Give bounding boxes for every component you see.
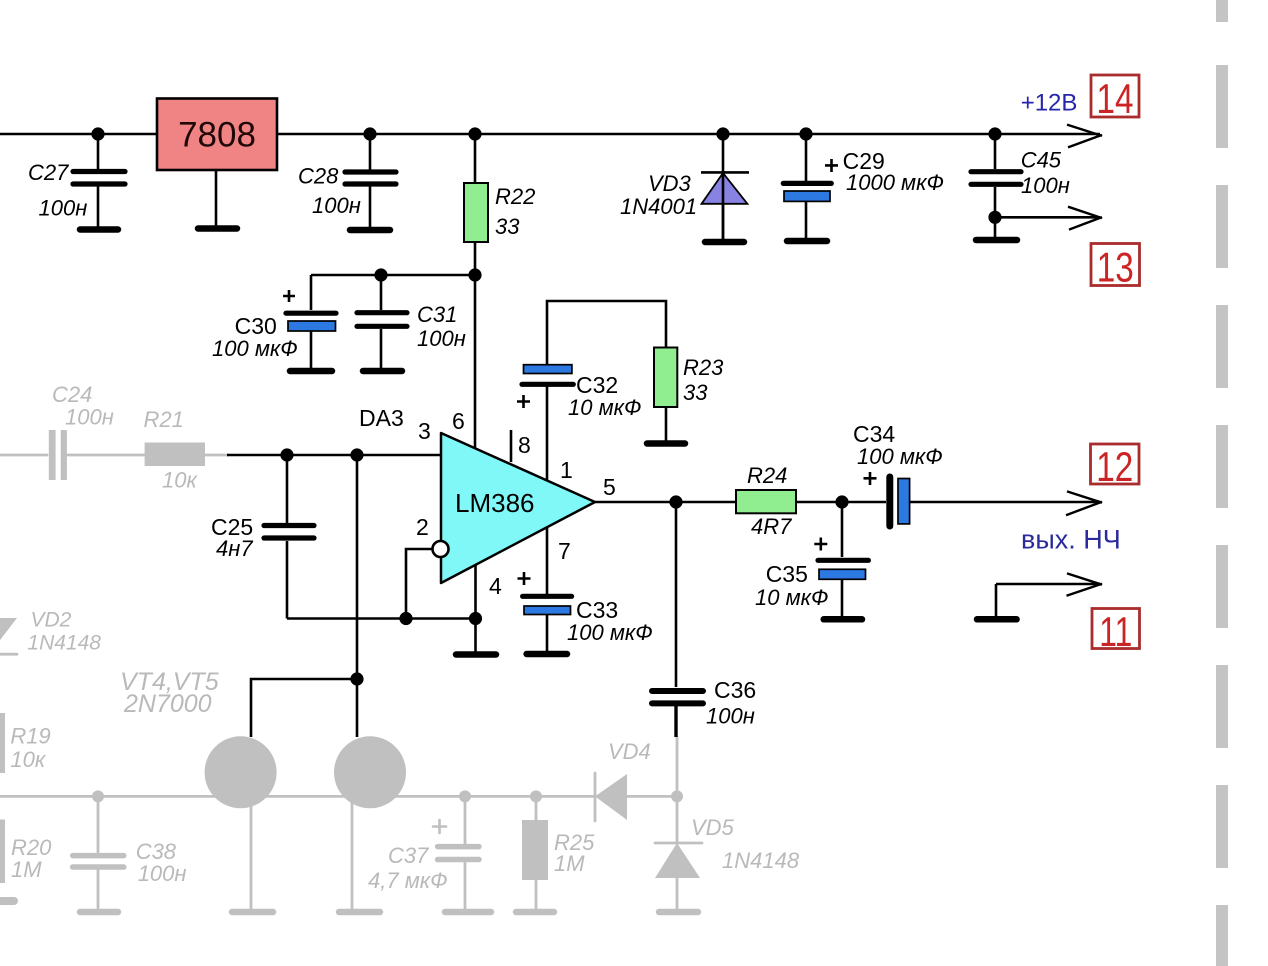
node pin2 bottom [399, 612, 412, 625]
svg-text:2: 2 [416, 514, 429, 540]
node R25 junction [530, 790, 542, 802]
wire +12V rail right [277, 133, 1100, 136]
resistor R25 [522, 796, 548, 908]
diode VD3 [701, 172, 749, 239]
wire C24 to R21 [68, 454, 145, 457]
ground pin4 [456, 651, 496, 658]
wire C27 bottom [97, 187, 100, 229]
svg-text:2N7000: 2N7000 [123, 690, 212, 718]
plus C29 [825, 159, 838, 172]
node C45 bottom [988, 211, 1001, 224]
svg-text:4: 4 [489, 573, 502, 599]
wire C25 top lead [286, 455, 289, 523]
capacitor C33 blue plate [524, 606, 571, 615]
regulator U 7808 [157, 99, 277, 171]
ARROWS [1066, 125, 1102, 596]
plus C34 [864, 472, 877, 485]
svg-text:C27: C27 [28, 160, 69, 185]
node output C36 [669, 495, 682, 508]
capacitor C37 [433, 796, 479, 908]
capacitor C34 blue plate [898, 479, 910, 524]
capacitor C25 [264, 526, 314, 539]
ground C33 [527, 651, 567, 658]
capacitor C30 blue plate [288, 321, 336, 331]
svg-text:100н: 100н [706, 704, 755, 729]
wire C32 top to R23 [547, 301, 666, 366]
svg-text:1N4001: 1N4001 [620, 194, 697, 219]
node C37 junction [459, 790, 471, 802]
ground R23 [647, 440, 685, 447]
svg-text:R21: R21 [144, 407, 184, 432]
capacitor C38 [73, 796, 124, 908]
svg-text:VD5: VD5 [691, 815, 735, 840]
svg-text:10к: 10к [162, 468, 198, 493]
svg-text:DA3: DA3 [359, 405, 404, 431]
svg-text:C32: C32 [576, 372, 618, 398]
ground VT5 [339, 909, 380, 916]
arrow output 14 [1067, 125, 1102, 148]
svg-text:C36: C36 [714, 677, 756, 703]
arrow output 12 [1066, 491, 1102, 515]
svg-text:C31: C31 [417, 302, 457, 327]
svg-text:33: 33 [683, 380, 708, 405]
wire pin7 to C33 [546, 527, 549, 594]
svg-text:100 мкФ: 100 мкФ [212, 336, 298, 361]
node rail C29 [799, 127, 812, 140]
svg-text:C28: C28 [298, 164, 339, 189]
svg-text:VD4: VD4 [608, 739, 651, 764]
capacitor C29 top plate [783, 181, 831, 186]
node C25 top [280, 448, 293, 461]
svg-text:13: 13 [1097, 244, 1134, 291]
svg-text:LM386: LM386 [455, 488, 535, 518]
CONNECTOR PIN BOXES [1091, 75, 1140, 655]
capacitor C32 blue plate [524, 365, 572, 374]
capacitor C29 blue plate [784, 191, 830, 201]
svg-text:100н: 100н [417, 326, 466, 351]
wire input black to pin3 [227, 454, 441, 457]
wire VD3 ground lead [722, 204, 725, 239]
op-amp DA3 LM386 [441, 433, 595, 583]
wire R23 ground lead [665, 407, 668, 441]
ground VT4 [232, 909, 273, 916]
resistor R23 [654, 348, 677, 408]
resistor R24 [736, 490, 796, 513]
transistor VT5 [334, 736, 406, 808]
wire C33 ground lead [546, 613, 549, 651]
node R22 bottom [468, 268, 481, 281]
wire gate VT4 branch [251, 679, 357, 737]
ground 7808 [198, 225, 237, 232]
node rail C28 [363, 127, 376, 140]
wire pin2 to bottom node [406, 549, 433, 619]
pin box 12 [1091, 443, 1140, 490]
node rail R22 [468, 127, 481, 140]
wire R24 to C34 [796, 501, 886, 504]
svg-text:1N4148: 1N4148 [722, 848, 800, 873]
svg-text:100 мкФ: 100 мкФ [857, 444, 943, 469]
wire bottom node line [287, 617, 476, 620]
capacitor C36 [652, 691, 703, 703]
BLUE NET LABELS [1021, 90, 1121, 555]
ground C27 [80, 226, 118, 233]
svg-text:4R7: 4R7 [751, 514, 792, 539]
ground C29 [787, 238, 827, 245]
svg-text:100 мкФ: 100 мкФ [567, 620, 653, 645]
svg-text:R24: R24 [747, 463, 787, 488]
svg-text:7: 7 [558, 538, 571, 564]
diode VD2 fragment [0, 618, 17, 654]
svg-text:10к: 10к [10, 747, 46, 772]
node gate branch [350, 672, 363, 685]
svg-text:7808: 7808 [178, 116, 256, 155]
wire arrow11 line [996, 583, 1100, 586]
ground R20 fragment [0, 897, 14, 905]
BLACK TEXT LABELS italic [28, 148, 1070, 729]
wire arrow13 line [995, 216, 1100, 219]
node C31 top [374, 268, 387, 281]
node rail C45 [988, 127, 1001, 140]
wire R22 bottom to pin6 [474, 242, 477, 448]
capacitor C45 [971, 172, 1021, 185]
svg-text:1M: 1M [554, 851, 585, 876]
svg-text:VD3: VD3 [648, 171, 692, 196]
svg-text:100н: 100н [39, 196, 88, 221]
GRAY TEXT LABELS [10, 382, 799, 893]
wire gray rail [0, 795, 677, 798]
GRAY (disabled) SECTION [0, 430, 702, 912]
wire +12V rail left [0, 133, 157, 136]
capacitor C30 top plate [286, 311, 336, 316]
wire C29 top [805, 134, 808, 181]
ground C38 [80, 909, 118, 916]
svg-text:C34: C34 [853, 421, 895, 447]
diode VD5 [655, 737, 702, 908]
pin box 11 [1092, 608, 1140, 655]
plus C35 [814, 538, 827, 551]
ground C30 [290, 368, 332, 375]
ground C45 [976, 237, 1017, 244]
svg-text:R22: R22 [495, 184, 535, 209]
wire C30 top lead [310, 275, 313, 310]
wire VT4 source [250, 800, 253, 908]
svg-text:10 мкФ: 10 мкФ [755, 585, 829, 610]
capacitor C33 top plate [523, 594, 572, 599]
wire C29 ground lead [805, 202, 808, 239]
svg-text:10 мкФ: 10 мкФ [568, 395, 642, 420]
svg-text:C25: C25 [211, 514, 253, 540]
svg-text:1: 1 [560, 457, 573, 483]
wire C25 bottom lead [286, 541, 289, 619]
svg-text:11: 11 [1099, 608, 1132, 655]
ground C31 [363, 368, 402, 375]
svg-text:100н: 100н [1021, 173, 1070, 198]
pin box 14 [1091, 75, 1139, 122]
wire pin4 ground lead [474, 565, 477, 652]
node pin4 bottom [469, 612, 482, 625]
wire C35 top lead [841, 502, 844, 557]
svg-text:1N4148: 1N4148 [27, 632, 101, 655]
wire R21 to black transition [205, 454, 228, 457]
svg-text:33: 33 [495, 214, 520, 239]
wire C31 bottom lead [380, 329, 383, 368]
capacitor C24 [49, 430, 67, 480]
svg-text:4,7 мкФ: 4,7 мкФ [368, 868, 448, 893]
capacitor C28 [345, 172, 396, 184]
ground C37 [445, 909, 491, 916]
ground C28 [350, 227, 390, 234]
wire pin5 output [595, 501, 736, 504]
node C38 junction [92, 790, 104, 802]
plus C33 [518, 572, 531, 585]
wire arrow11 ground lead [995, 584, 998, 616]
svg-text:VD2: VD2 [31, 609, 72, 632]
wire C45 top [994, 134, 997, 169]
wire C28 bottom [369, 187, 372, 229]
svg-text:C33: C33 [576, 597, 618, 623]
node VD5 junction [671, 790, 683, 802]
arrow output 13 [1068, 207, 1102, 230]
wire pin1 to C32 [546, 385, 549, 480]
resistor R20 [0, 820, 5, 884]
node output C35 [835, 495, 848, 508]
wire C30 bottom lead [310, 331, 313, 368]
svg-text:C35: C35 [766, 561, 808, 587]
ground C35 [824, 616, 862, 623]
wire C45 bottom [994, 187, 997, 237]
BLACK TEXT LABELS upright [211, 148, 895, 703]
wire C27 top [97, 134, 100, 169]
wire C36 top lead [675, 502, 678, 687]
capacitor C32 bottom plate [522, 382, 573, 387]
PLUS SIGNS [283, 159, 877, 585]
svg-text:C45: C45 [1021, 148, 1062, 173]
capacitor C31 [357, 313, 407, 327]
GROUND SYMBOLS black [80, 229, 1017, 655]
wire VT5 source [351, 800, 354, 908]
svg-text:6: 6 [452, 408, 465, 434]
CAPACITOR PLATES black [73, 172, 1021, 704]
wire C34 to arrow 12 [910, 501, 1100, 504]
svg-text:+12В: +12В [1021, 90, 1078, 117]
svg-text:R19: R19 [10, 724, 50, 749]
wire gate column [356, 455, 359, 737]
capacitor C35 blue plate [819, 569, 866, 579]
svg-text:100н: 100н [312, 193, 361, 218]
page boundary dashed line [1216, 0, 1228, 966]
svg-text:вых. НЧ: вых. НЧ [1021, 525, 1121, 555]
svg-text:100н: 100н [65, 405, 114, 430]
wire VD3 top [722, 134, 725, 172]
transistor VT4 [205, 736, 277, 808]
svg-text:C30: C30 [235, 313, 277, 339]
capacitor C34 left plate [886, 477, 893, 526]
BLACK WIRES [0, 134, 1100, 737]
wire C35 ground lead [841, 580, 844, 616]
ground R25 [516, 909, 554, 916]
ground arrow11 [977, 616, 1017, 623]
svg-text:12: 12 [1096, 443, 1133, 490]
wire pin8 stub [510, 430, 513, 462]
capacitor C27 [73, 172, 125, 185]
svg-text:C24: C24 [52, 382, 92, 407]
arrow output 11 [1067, 573, 1103, 595]
wire C28 top [369, 134, 372, 170]
node rail C27 [91, 127, 104, 140]
svg-text:8: 8 [518, 432, 531, 458]
plus C32 [517, 395, 530, 408]
svg-text:100н: 100н [138, 861, 187, 886]
svg-text:14: 14 [1097, 75, 1134, 122]
resistor R21 [145, 443, 205, 467]
capacitor C35 top plate [818, 558, 868, 563]
BLUE ELECTROLYTIC PLATES [288, 191, 910, 615]
diode VD4 [595, 773, 627, 821]
wire 7808 ground lead [215, 170, 218, 226]
resistor R19 [0, 713, 5, 773]
node rail VD3 [716, 127, 729, 140]
svg-text:5: 5 [603, 474, 616, 500]
ground VD5 [659, 909, 698, 916]
wire R22 top [474, 134, 477, 183]
wire input gray from left edge to C24 [0, 454, 47, 457]
node gate column top [350, 448, 363, 461]
svg-text:C29: C29 [843, 148, 885, 174]
wire C31 top lead [380, 275, 383, 310]
svg-text:C37: C37 [388, 843, 429, 868]
wire node275 horizontal [311, 274, 475, 277]
ground VD3 [705, 239, 744, 246]
resistor R22 [464, 183, 488, 242]
pin 2 bubble [433, 541, 449, 557]
pin box 13 [1091, 244, 1140, 291]
svg-text:R23: R23 [683, 355, 724, 380]
svg-text:1M: 1M [11, 857, 42, 882]
svg-text:3: 3 [418, 418, 431, 444]
wire C36 bottom black [674, 705, 677, 737]
plus C30 [283, 290, 295, 302]
